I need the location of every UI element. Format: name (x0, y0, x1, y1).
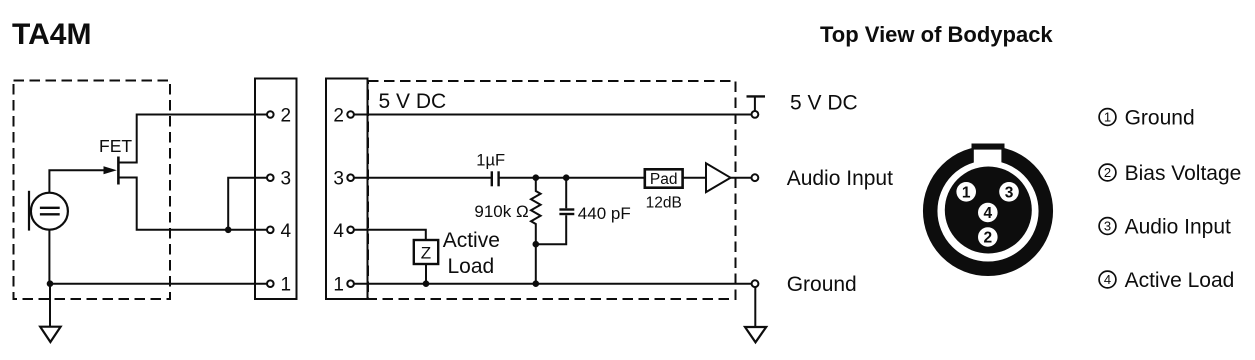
svg-text:1: 1 (281, 275, 292, 296)
socket pin 1 (956, 182, 976, 202)
TA4F pin 4 (333, 221, 353, 242)
svg-text:5 V DC: 5 V DC (790, 92, 858, 115)
svg-text:Audio Input: Audio Input (1125, 215, 1231, 238)
svg-text:Z: Z (421, 244, 431, 263)
junction dot node C (533, 241, 540, 248)
TA4M pin 1 (267, 275, 291, 296)
junction dot node B (563, 174, 570, 181)
capacitor C1 1uF (492, 171, 499, 186)
svg-text:12dB: 12dB (646, 195, 682, 212)
electret microphone MIC (29, 191, 68, 231)
svg-text:910k Ω: 910k Ω (474, 202, 528, 221)
svg-text:4: 4 (281, 221, 292, 242)
junction dot tie pins 3-4 (225, 227, 232, 234)
svg-text:2: 2 (281, 106, 292, 127)
legend item 3 Audio Input (1099, 215, 1231, 238)
capacitor C2 440pF (536, 178, 575, 245)
bodypack enclosure dashed box (368, 81, 736, 299)
junction dot mic ground (47, 280, 54, 287)
svg-text:1: 1 (1104, 110, 1111, 125)
svg-text:3: 3 (1005, 184, 1014, 201)
junction dot node E (423, 280, 430, 287)
svg-text:5 V DC: 5 V DC (379, 90, 447, 113)
junction dot node D (533, 280, 540, 287)
transistor FET gate bar (117, 157, 120, 185)
wire ground terminal down (754, 287, 756, 327)
wire ground to pin 1 (50, 283, 267, 285)
svg-text:Ground: Ground (787, 273, 857, 296)
wire node C to ground bus (535, 244, 537, 284)
wire mic to FET gate with arrowhead (49, 166, 116, 192)
svg-text:4: 4 (983, 205, 992, 222)
svg-text:Top View of Bodypack: Top View of Bodypack (820, 22, 1053, 47)
svg-text:4: 4 (333, 221, 344, 242)
5V DC terminal (747, 96, 766, 117)
amplifier buffer A1 (706, 163, 731, 192)
ground symbol right (745, 327, 766, 342)
wire pin 1 ground bus (354, 283, 752, 285)
svg-text:Pad: Pad (650, 171, 678, 188)
TA4F pin 1 (333, 275, 353, 296)
connector keyway tab (972, 144, 1005, 167)
wire tie to pin 3 (228, 178, 267, 230)
connector face outer ring (930, 153, 1046, 269)
svg-text:Ground: Ground (1125, 106, 1195, 129)
svg-text:2: 2 (983, 230, 992, 247)
socket pin 2 (978, 227, 998, 247)
label Active Load (443, 229, 500, 278)
svg-text:Bias Voltage: Bias Voltage (1125, 162, 1242, 185)
svg-text:1: 1 (333, 275, 344, 296)
connector TA4M plug body (255, 79, 297, 300)
svg-text:3: 3 (333, 169, 344, 190)
wire mic ground down (48, 230, 50, 284)
pad attenuator U1 (645, 169, 683, 188)
TA4M pin 4 (267, 221, 292, 242)
TA4F pin 2 (333, 106, 353, 127)
svg-text:Active: Active (443, 229, 500, 252)
svg-text:1µF: 1µF (476, 152, 505, 170)
svg-text:1: 1 (962, 184, 971, 201)
wire amplifier to audio terminal (731, 177, 752, 179)
svg-text:3: 3 (1104, 219, 1111, 234)
connector insert disc (945, 167, 1032, 254)
svg-text:FET: FET (99, 136, 132, 156)
wire FET drain to pin 2 (119, 115, 267, 163)
svg-text:2: 2 (1104, 165, 1111, 180)
wire pin 3 to C1 (354, 177, 491, 179)
legend item 4 Active Load (1099, 269, 1234, 292)
TA4F pin 3 (333, 169, 353, 190)
microphone enclosure dashed box (14, 81, 171, 300)
wire FET source to pin 4 (119, 178, 267, 230)
wire pin 2 to 5V terminal (354, 114, 752, 116)
wire pin 4 to active load (354, 230, 426, 240)
legend item 2 Bias Voltage (1099, 162, 1241, 185)
TA4M pin 2 (267, 106, 291, 127)
svg-text:4: 4 (1104, 272, 1111, 287)
legend item 1 Ground (1099, 106, 1195, 129)
wire pad to amplifier (683, 177, 706, 179)
socket pin 3 (999, 182, 1019, 202)
svg-text:3: 3 (281, 169, 292, 190)
wire down to left ground symbol (49, 284, 51, 327)
socket pin 4 (978, 203, 998, 223)
audio input terminal (752, 174, 759, 181)
active load Z1 (414, 240, 438, 264)
TA4M pin 3 (267, 169, 291, 190)
connector TA4F socket body (326, 79, 368, 300)
ground terminal (752, 280, 759, 287)
svg-text:Audio Input: Audio Input (787, 167, 893, 190)
resistor R1 910k (531, 178, 541, 245)
svg-text:Active Load: Active Load (1125, 269, 1235, 292)
wire active load to ground bus (425, 264, 427, 284)
svg-text:TA4M: TA4M (12, 18, 91, 51)
svg-text:2: 2 (333, 106, 344, 127)
ground symbol left (40, 327, 60, 342)
svg-text:440 pF: 440 pF (578, 204, 631, 223)
junction dot node A (533, 174, 540, 181)
wire C1 to pad (500, 177, 645, 179)
svg-text:Load: Load (448, 255, 495, 278)
